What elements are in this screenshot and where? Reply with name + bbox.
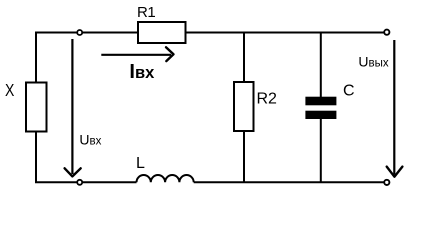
wire: C bottom lead xyxy=(320,119,322,182)
arrow: input voltage Uvx (points down) xyxy=(71,39,73,174)
wire: left vertical from top corner down to X top xyxy=(35,32,37,82)
capacitor C bottom plate xyxy=(305,111,336,119)
wire: C top lead xyxy=(320,33,322,98)
svg-text:R2: R2 xyxy=(257,91,278,108)
wire: top horizontal from R1 right terminal to output terminal xyxy=(187,32,385,34)
svg-text:L: L xyxy=(136,155,145,172)
wire: bottom horizontal from left corner to inductor L xyxy=(35,181,137,183)
resistor X (unknown element) body xyxy=(26,83,47,132)
capacitor C top plate xyxy=(305,97,336,106)
arrow: output voltage Uvyx (points down) xyxy=(393,40,395,175)
wire: left vertical from X bottom to bottom wire xyxy=(35,132,37,182)
inductor L coil xyxy=(137,175,194,182)
wire: R2 bottom lead xyxy=(243,132,245,182)
svg-text:R1: R1 xyxy=(137,4,155,21)
node: input top junction xyxy=(77,30,82,35)
resistor R2 body xyxy=(234,82,254,131)
arrow: input current Ivx (points right) xyxy=(101,54,171,56)
terminal: output bottom xyxy=(384,180,389,185)
wire: top horizontal from left corner to R1 left terminal xyxy=(36,32,137,34)
svg-text:X: X xyxy=(5,80,15,100)
resistor R1 body xyxy=(138,22,186,43)
wire: bottom horizontal from inductor L to output terminal xyxy=(194,181,384,183)
svg-text:Iвх: Iвх xyxy=(129,61,155,83)
terminal: output top xyxy=(384,30,389,35)
svg-text:C: C xyxy=(343,82,355,99)
wire: R2 top lead xyxy=(243,33,245,82)
node: input bottom junction xyxy=(77,180,82,185)
